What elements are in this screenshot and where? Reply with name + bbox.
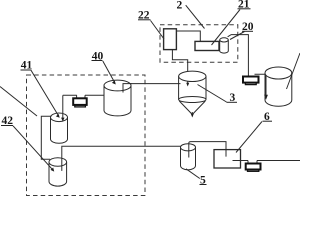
svg-text:41: 41	[21, 60, 33, 72]
svg-text:2: 2	[177, 0, 183, 11]
svg-text:40: 40	[92, 50, 104, 62]
svg-text:22: 22	[138, 9, 150, 21]
svg-text:6: 6	[264, 111, 270, 123]
svg-text:5: 5	[200, 175, 206, 187]
svg-text:20: 20	[242, 21, 254, 33]
svg-text:42: 42	[2, 115, 14, 127]
svg-text:3: 3	[230, 92, 236, 104]
svg-text:21: 21	[238, 0, 250, 11]
